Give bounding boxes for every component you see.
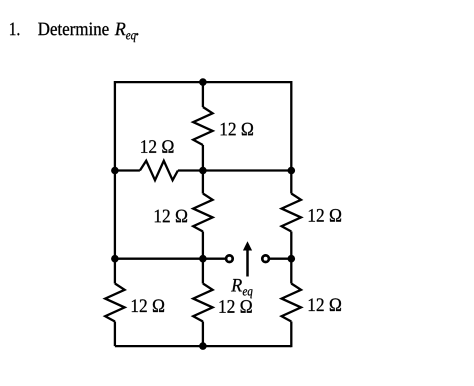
title "1. Determine Req." (10, 23, 138, 43)
resistor R horizontal 12 ohm (140, 161, 178, 180)
label 12 ohm bottom-middle (220, 300, 252, 313)
label 12 ohm right-middle (309, 209, 341, 222)
resistor R top-middle 12 ohm (193, 107, 212, 145)
resistor R middle-middle 12 ohm (193, 194, 212, 232)
wire middle column between R and row C (202, 232, 204, 259)
wire right rail upper (290, 81, 292, 194)
node junction row C middle (199, 255, 207, 263)
wire left column between row C and R (114, 259, 116, 284)
node junction row B left (111, 167, 119, 175)
node junction row C right (288, 255, 296, 263)
wire row B right span (178, 169, 291, 171)
wire bottom rail (115, 345, 291, 347)
arrow Req direction (243, 241, 252, 276)
resistor R bottom-right 12 ohm (282, 284, 301, 322)
node junction row C left (111, 255, 119, 263)
label 12 ohm bottom-right (309, 298, 341, 311)
resistor R right-middle 12 ohm (282, 194, 301, 232)
node junction row B middle (199, 167, 207, 175)
label 12 ohm horizontal (141, 140, 173, 153)
wire middle column between R1 and row B (202, 145, 204, 194)
wire row C left span (115, 258, 225, 260)
wire top rail (115, 81, 291, 83)
wire row B left stub (115, 169, 140, 171)
wire right rail between row C and R (290, 259, 292, 284)
wire middle column top stub (202, 82, 204, 107)
node junction bottom-middle (199, 342, 207, 350)
terminal b open circle (262, 255, 269, 262)
node junction top-middle (199, 78, 207, 86)
node junction row B right (288, 167, 296, 175)
resistor R bottom-left 12 ohm (105, 284, 124, 322)
label Req at arrow (231, 279, 252, 298)
wire left rail (114, 81, 116, 259)
wire row C right span (270, 258, 291, 260)
wire middle column between row C and R (202, 259, 204, 284)
resistor R bottom-middle 12 ohm (193, 284, 212, 322)
wire middle column below R (202, 322, 204, 347)
label 12 ohm top-middle (221, 123, 253, 136)
label 12 ohm bottom-left (132, 299, 164, 312)
wire right rail between R and row C (290, 232, 292, 259)
terminal a open circle (226, 255, 233, 262)
wire right rail below R (290, 322, 292, 348)
label 12 ohm middle-middle (155, 210, 187, 223)
wire left column below R (114, 322, 116, 347)
